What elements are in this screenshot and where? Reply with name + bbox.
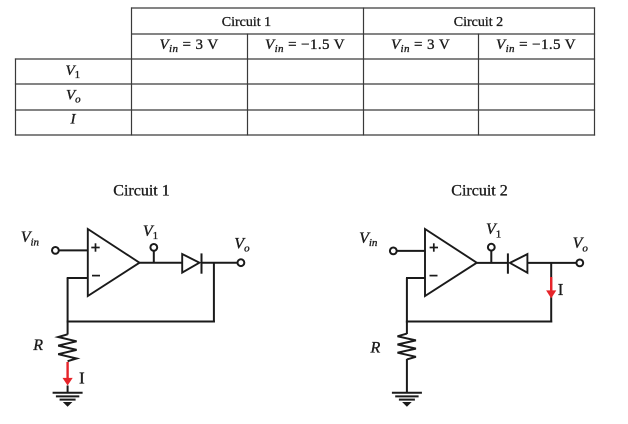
wire left vertical (feedback to - input) [67, 278, 69, 323]
svg-text:Vin: Vin [21, 229, 40, 248]
svg-text:V1: V1 [143, 223, 158, 242]
row label V1 [66, 63, 81, 81]
wire Vin to op-amp + input (circuit 2) [396, 250, 425, 252]
table header Circuit 2 [454, 15, 503, 30]
wire Vin to op-amp + input [58, 249, 87, 251]
current arrow I (circuit 1) [63, 362, 86, 388]
svg-text:I: I [70, 112, 77, 128]
wire feedback bottom (circuit 2) [406, 321, 552, 323]
current arrow I (circuit 2) [546, 277, 564, 299]
svg-text:I: I [558, 280, 564, 299]
table header Circuit 1 [222, 15, 271, 30]
terminal Vo (circuit 2) [573, 235, 589, 266]
wire output vertical (circuit 2) [550, 263, 552, 323]
wire op-amp - input (circuit 2) [406, 277, 425, 279]
svg-text:Vin = 3 V: Vin = 3 V [159, 37, 218, 55]
svg-text:Vo: Vo [573, 235, 589, 254]
label Vin (circuit 1) [21, 229, 40, 248]
resistor R (circuit 1) [32, 322, 76, 362]
wire diode to Vo (circuit 2) [527, 262, 576, 264]
wire diode to Vo [202, 262, 238, 264]
svg-text:Vin = 3 V: Vin = 3 V [391, 37, 450, 55]
wire feedback bottom (circuit 1) [67, 321, 215, 323]
svg-text:Circuit 1: Circuit 1 [222, 15, 271, 30]
wire op-amp output to diode [140, 262, 183, 264]
svg-text:Circuit 2: Circuit 2 [454, 15, 503, 30]
results table grid [15, 7, 595, 135]
node V1 (circuit 2) [486, 221, 501, 263]
wire to ground (circuit 1) [67, 386, 69, 393]
row label I [70, 112, 77, 128]
op-amp U1 [88, 229, 140, 296]
label Vin (circuit 2) [359, 230, 378, 249]
ground (circuit 2) [392, 393, 422, 407]
svg-text:Vin: Vin [359, 230, 378, 249]
svg-text:R: R [370, 340, 381, 357]
column label Vin = -1.5 V (circuit 2) [496, 37, 576, 55]
title Circuit 1 [113, 183, 169, 200]
column label Vin = 3 V (circuit 2) [391, 37, 450, 55]
title Circuit 2 [451, 183, 507, 200]
svg-text:R: R [32, 337, 43, 354]
wire op-amp output to diode (circuit 2) [477, 262, 507, 264]
resistor R (circuit 2) [370, 322, 416, 360]
svg-text:Vin = −1.5 V: Vin = −1.5 V [265, 37, 345, 55]
wire feedback vertical right (circuit 1) [213, 263, 215, 323]
terminal Vin (circuit 1) [52, 247, 59, 254]
svg-text:Circuit 2: Circuit 2 [451, 183, 507, 200]
column label Vin = 3 V (circuit 1) [159, 37, 218, 55]
op-amp U2 [425, 229, 477, 296]
wire op-amp - input [67, 277, 88, 279]
ground (circuit 1) [53, 393, 83, 407]
svg-text:Vo: Vo [234, 235, 250, 254]
wire left vertical (circuit 2) [406, 278, 408, 323]
svg-text:I: I [79, 369, 85, 388]
svg-text:Circuit 1: Circuit 1 [113, 183, 169, 200]
terminal Vo (circuit 1) [234, 235, 250, 266]
wire to ground (circuit 2) [406, 359, 408, 393]
svg-text:Vin = −1.5 V: Vin = −1.5 V [496, 37, 576, 55]
diode D1 [182, 253, 201, 273]
diode D2 (reversed) [508, 253, 528, 273]
svg-text:V1: V1 [486, 221, 501, 240]
row label Vo [66, 88, 81, 106]
svg-text:V1: V1 [66, 63, 81, 81]
node V1 (circuit 1) [143, 223, 158, 263]
svg-text:Vo: Vo [66, 88, 81, 106]
terminal Vin (circuit 2) [390, 248, 397, 255]
column label Vin = -1.5 V (circuit 1) [265, 37, 345, 55]
